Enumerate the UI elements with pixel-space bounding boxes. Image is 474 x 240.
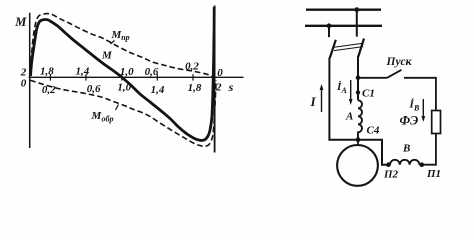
svg-text:В: В: [402, 143, 410, 155]
svg-text:0: 0: [217, 67, 223, 79]
svg-text:пр: пр: [121, 33, 129, 42]
svg-text:0,6: 0,6: [145, 66, 159, 78]
svg-text:П2: П2: [383, 169, 399, 181]
svg-text:s: s: [228, 80, 234, 94]
svg-text:П1: П1: [426, 168, 441, 180]
svg-text:0,6: 0,6: [87, 83, 101, 95]
svg-text:1,8: 1,8: [188, 82, 202, 94]
svg-text:обр: обр: [102, 115, 114, 124]
svg-text:ФЭ: ФЭ: [400, 114, 419, 128]
svg-text:В: В: [413, 104, 420, 113]
svg-text:А: А: [341, 86, 348, 95]
svg-text:0,2: 0,2: [185, 61, 199, 73]
svg-text:С4: С4: [367, 125, 380, 137]
svg-text:М: М: [101, 50, 113, 62]
svg-text:2: 2: [215, 82, 222, 94]
svg-text:1,4: 1,4: [151, 84, 165, 96]
svg-text:0: 0: [21, 78, 27, 90]
svg-text:А: А: [345, 111, 353, 123]
svg-text:1,0: 1,0: [117, 82, 131, 94]
svg-text:I: I: [310, 94, 317, 109]
svg-text:1,8: 1,8: [40, 65, 54, 77]
svg-text:Пуск: Пуск: [386, 56, 413, 68]
svg-text:1,0: 1,0: [120, 66, 134, 78]
svg-text:M: M: [14, 15, 27, 29]
svg-text:С1: С1: [362, 88, 375, 100]
svg-text:1,4: 1,4: [76, 65, 90, 77]
svg-text:0,2: 0,2: [42, 84, 56, 96]
